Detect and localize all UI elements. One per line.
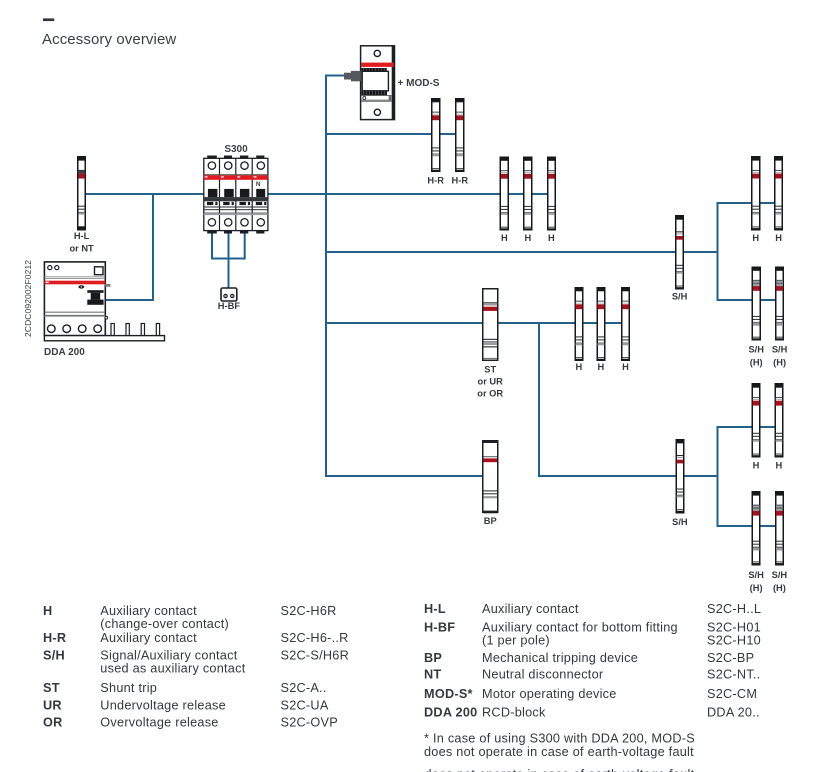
- svg-text:(H): (H): [773, 583, 786, 593]
- svg-text:Accessory overview: Accessory overview: [42, 31, 176, 48]
- svg-text:H: H: [752, 233, 759, 243]
- svg-text:DDA 200: DDA 200: [44, 347, 85, 358]
- svg-text:does not operate in case of ea: does not operate in case of earth-voltag…: [425, 768, 695, 772]
- device S/H (H) lower pair no.2: [775, 492, 783, 565]
- wire lower bracket vertical: [717, 427, 719, 526]
- svg-text:(1 per pole): (1 per pole): [482, 634, 550, 648]
- device H strip upper-right no.1: [752, 157, 760, 230]
- device BP tripping device strip: [483, 441, 498, 514]
- svg-text:H-BF: H-BF: [424, 621, 455, 635]
- device MOD-S motor operating device: [344, 46, 395, 120]
- svg-text:S/H: S/H: [772, 570, 788, 580]
- wire DDA 200 drop vertical: [152, 194, 154, 300]
- svg-text:Overvoltage release: Overvoltage release: [100, 716, 218, 730]
- svg-text:S/H: S/H: [672, 292, 688, 302]
- svg-text:S2C-H6R: S2C-H6R: [281, 604, 337, 618]
- device H strip row1 no.1: [500, 157, 508, 230]
- wire bus2 to S/H upper: [325, 251, 718, 253]
- wire S300 pin 2: [228, 232, 230, 289]
- svg-text:H: H: [776, 461, 783, 471]
- legend right column: [424, 602, 761, 772]
- svg-text:(H): (H): [750, 583, 763, 593]
- device S/H lower strip: [676, 440, 684, 513]
- device S/H (H) upper pair no.1: [752, 267, 760, 340]
- wire vertical ST-to-BP-row: [538, 323, 540, 476]
- wire MOD-S feed: [325, 75, 345, 77]
- svg-text:BP: BP: [484, 516, 497, 526]
- svg-text:Mechanical tripping device: Mechanical tripping device: [482, 651, 638, 665]
- svg-text:H: H: [622, 362, 629, 372]
- svg-text:(H): (H): [750, 358, 763, 368]
- svg-text:Shunt trip: Shunt trip: [100, 681, 157, 695]
- svg-text:S2C-H6-..R: S2C-H6-..R: [281, 631, 349, 645]
- svg-text:S300: S300: [224, 144, 248, 155]
- device H strip row2 no.1: [575, 287, 583, 360]
- svg-text:Motor operating device: Motor operating device: [482, 687, 617, 701]
- wire bus3 through ST: [325, 322, 625, 324]
- device H strip upper-right no.2: [775, 157, 783, 230]
- wire S300 pin 1: [211, 232, 213, 259]
- svg-text:H-R: H-R: [452, 176, 469, 186]
- device H strip row2 no.2: [597, 287, 605, 360]
- device H strip lower-right no.1: [752, 384, 760, 457]
- legend left column: [43, 604, 349, 730]
- svg-text:H: H: [753, 461, 760, 471]
- svg-text:S2C-BP: S2C-BP: [707, 651, 754, 665]
- wire upper bracket bottom branch: [717, 299, 779, 301]
- svg-text:Auxiliary contact for bottom f: Auxiliary contact for bottom fitting: [482, 621, 678, 635]
- svg-text:OR: OR: [43, 716, 63, 730]
- svg-text:NT: NT: [424, 668, 441, 682]
- svg-text:Undervoltage release: Undervoltage release: [100, 698, 226, 712]
- wire upper bracket vertical: [717, 203, 719, 300]
- device H-R strip 1: [432, 98, 440, 171]
- svg-text:S2C-H10: S2C-H10: [707, 634, 761, 648]
- wire upper bracket top branch: [717, 202, 779, 204]
- device H strip row1 no.3: [547, 157, 555, 230]
- svg-text:used as auxiliary contact: used as auxiliary contact: [100, 662, 245, 676]
- svg-text:S2C-H01: S2C-H01: [707, 621, 761, 635]
- svg-text:H: H: [548, 233, 555, 243]
- wire DDA 200 horizontal: [104, 299, 154, 301]
- device S/H (H) lower pair no.1: [752, 492, 760, 565]
- svg-text:Auxiliary contact: Auxiliary contact: [100, 604, 197, 618]
- svg-text:Signal/Auxiliary contact: Signal/Auxiliary contact: [100, 648, 237, 662]
- device DDA 200 RCD block: [44, 262, 164, 341]
- svg-text:Auxiliary contact: Auxiliary contact: [482, 602, 579, 616]
- svg-text:H-BF: H-BF: [218, 301, 241, 311]
- device H-R strip 2: [456, 98, 464, 171]
- svg-text:S/H: S/H: [772, 345, 788, 355]
- svg-text:S2C-OVP: S2C-OVP: [281, 716, 338, 730]
- wire bus4 to S/H lower: [538, 475, 718, 477]
- wire main bus through S300: [85, 193, 551, 195]
- svg-text:S/H: S/H: [43, 648, 65, 662]
- svg-text:S2C-H..L: S2C-H..L: [707, 602, 761, 616]
- svg-text:Neutral disconnector: Neutral disconnector: [482, 668, 604, 682]
- title dash: [43, 18, 54, 21]
- device H-BF bottom-fitting auxiliary contact: [221, 288, 237, 301]
- svg-text:H: H: [43, 604, 52, 618]
- wire lower bracket top branch: [717, 426, 779, 428]
- svg-text:S/H: S/H: [672, 517, 688, 527]
- wire main vertical trunk: [325, 75, 327, 478]
- svg-text:S/H: S/H: [748, 345, 764, 355]
- svg-text:S2C-A..: S2C-A..: [281, 681, 327, 695]
- wire lower bracket bottom branch: [717, 525, 779, 527]
- svg-text:DDA 200: DDA 200: [424, 705, 477, 719]
- device H strip row1 no.2: [524, 157, 532, 230]
- device S/H (H) upper pair no.2: [776, 267, 784, 340]
- device S/H upper strip: [676, 216, 684, 289]
- device H strip row2 no.3: [622, 287, 630, 360]
- svg-text:H-L: H-L: [424, 602, 446, 616]
- svg-text:UR: UR: [43, 698, 62, 712]
- svg-text:(change-over contact): (change-over contact): [100, 617, 229, 631]
- svg-text:MOD-S*: MOD-S*: [424, 687, 473, 701]
- svg-text:S2C-CM: S2C-CM: [707, 687, 757, 701]
- svg-text:BP: BP: [424, 651, 442, 665]
- svg-text:S2C-S/H6R: S2C-S/H6R: [281, 648, 350, 662]
- svg-text:Auxiliary contact: Auxiliary contact: [100, 631, 197, 645]
- svg-text:H-R: H-R: [427, 176, 444, 186]
- svg-text:H: H: [576, 362, 583, 372]
- svg-text:(H): (H): [773, 358, 786, 368]
- wire S300 pin 3: [244, 232, 246, 259]
- breaker S300 4-pole: [204, 156, 268, 234]
- svg-text:2CDC092002F0212: 2CDC092002F0212: [23, 260, 33, 337]
- svg-text:S2C-UA: S2C-UA: [281, 698, 329, 712]
- svg-text:or NT: or NT: [69, 244, 94, 254]
- svg-text:S2C-NT..: S2C-NT..: [707, 668, 760, 682]
- svg-text:* In case of using S300 with D: * In case of using S300 with DDA 200, MO…: [424, 732, 695, 746]
- svg-text:does not operate in case of ea: does not operate in case of earth-voltag…: [424, 745, 694, 759]
- svg-text:H: H: [524, 233, 531, 243]
- svg-text:N: N: [256, 181, 261, 188]
- svg-text:H-R: H-R: [43, 631, 66, 645]
- wire BP feed: [325, 475, 483, 477]
- device ST / UR / OR release strip: [483, 289, 498, 361]
- svg-text:H-L: H-L: [74, 231, 90, 241]
- wire S300 pin collector: [211, 258, 246, 260]
- svg-text:DDA 20..: DDA 20..: [707, 705, 760, 719]
- wire H-R feed: [325, 133, 463, 135]
- device H-L auxiliary contact strip: [78, 157, 86, 230]
- svg-text:S/H: S/H: [748, 570, 764, 580]
- svg-text:ST: ST: [484, 365, 496, 375]
- svg-text:RCD-block: RCD-block: [482, 705, 546, 719]
- svg-text:H: H: [501, 233, 508, 243]
- svg-text:or UR: or UR: [478, 377, 504, 387]
- svg-text:ST: ST: [43, 681, 60, 695]
- svg-text:H: H: [775, 233, 782, 243]
- svg-text:or OR: or OR: [477, 389, 503, 399]
- device H strip lower-right no.2: [775, 384, 783, 457]
- svg-text:+ MOD-S: + MOD-S: [398, 78, 440, 89]
- svg-text:H: H: [598, 362, 605, 372]
